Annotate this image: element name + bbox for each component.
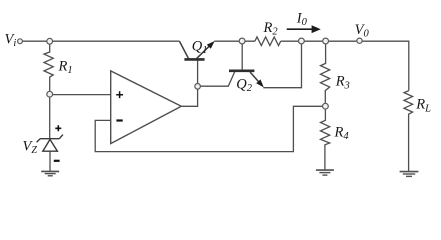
wire Q2 collector to op-amp output node [200,72,234,86]
op-amp minus sign [116,119,122,121]
wire Q2 base lead [241,44,243,70]
svg-text:R2: R2 [263,20,279,38]
transistor Q2 [229,71,266,90]
node junction R3/R4 feedback [323,103,329,109]
wire zener branch [49,97,51,138]
label R1 [58,59,73,77]
resistor R4 [321,109,330,170]
ground (RL) [400,172,419,177]
resistor R1 [44,44,53,91]
wire zener anode to ground [49,151,51,171]
ground (R4) [316,170,334,175]
svg-text:V0: V0 [355,22,370,40]
transistor Q1 [180,39,217,59]
current arrow I0 [287,25,321,33]
node junction R1/op-amp input [47,91,53,97]
svg-text:RL: RL [415,97,431,115]
node junction Q1 emitter / R2 left [239,38,245,44]
resistor R2 [255,37,281,46]
svg-text:R1: R1 [58,59,73,77]
svg-text:I0: I0 [296,11,308,29]
zener diode VZ [37,135,63,152]
wire Q1 base lead [197,60,199,83]
svg-text:Q2: Q2 [236,76,252,94]
label R3 [335,74,350,92]
op-amp U1 [111,71,182,144]
ground (zener) [41,171,59,175]
zener plus sign [55,125,61,131]
label Vi [5,32,17,50]
resistor R3 [321,44,330,103]
label V0 [355,22,370,40]
label RL [415,97,431,115]
node junction R2 right / Q2 emitter [299,38,305,44]
label Q2 [236,76,252,94]
wire feedback from inverting input to node under R3 [95,106,322,151]
terminal Vi [18,39,23,44]
wire op-amp noninverting input [53,94,110,96]
wire top left from Vi to Q1 collector [22,40,179,42]
wire op-amp output [181,89,197,106]
label R2 [263,20,279,38]
label Q1 [192,38,208,56]
label R4 [334,125,350,143]
node junction op-amp output [195,84,201,90]
zener minus sign [54,160,60,162]
label VZ [23,139,38,157]
svg-text:R4: R4 [334,125,350,143]
label I0 [296,11,308,29]
wire Q2 emitter to R2 right node [263,44,301,88]
svg-text:Q1: Q1 [192,38,208,56]
wire top right from Q1 emitter to RL corner [214,41,408,90]
svg-text:R3: R3 [335,74,350,92]
svg-text:Vi: Vi [5,32,17,50]
node junction R3 top [323,38,329,44]
resistor RL [404,91,413,172]
op-amp plus sign [116,91,123,98]
node junction Vi/R1 [47,38,53,44]
terminal V0 [357,38,362,43]
svg-text:VZ: VZ [23,139,38,157]
